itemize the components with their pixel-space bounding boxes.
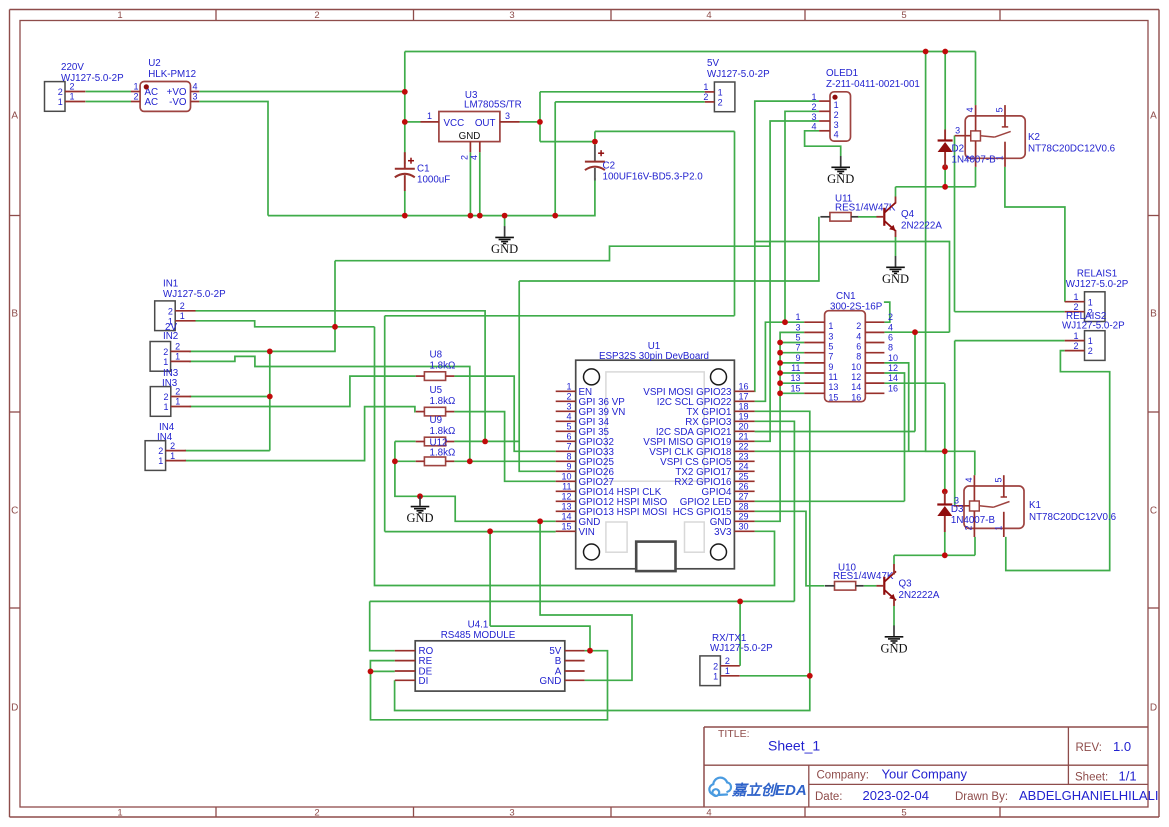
svg-text:ESP32S 30pin DevBoard: ESP32S 30pin DevBoard — [599, 351, 709, 362]
svg-text:Sheet_1: Sheet_1 — [768, 738, 820, 754]
svg-text:IN4: IN4 — [157, 432, 173, 443]
svg-text:3: 3 — [834, 120, 839, 130]
svg-text:1: 1 — [117, 10, 122, 21]
svg-text:12: 12 — [561, 491, 571, 501]
svg-text:U8: U8 — [430, 350, 443, 361]
svg-text:HLK-PM12: HLK-PM12 — [148, 69, 196, 80]
svg-text:14: 14 — [561, 511, 571, 521]
svg-text:15: 15 — [828, 392, 838, 402]
svg-text:3V3: 3V3 — [714, 527, 732, 538]
svg-text:14: 14 — [888, 373, 898, 383]
svg-text:2: 2 — [168, 306, 173, 316]
svg-text:2: 2 — [566, 391, 571, 401]
svg-text:D: D — [11, 703, 18, 714]
svg-text:3: 3 — [795, 322, 800, 332]
svg-text:29: 29 — [739, 511, 749, 521]
svg-text:2023-02-04: 2023-02-04 — [863, 788, 930, 803]
svg-text:3: 3 — [566, 401, 571, 411]
svg-text:11: 11 — [562, 481, 571, 491]
svg-text:18: 18 — [739, 401, 749, 411]
svg-text:1: 1 — [133, 82, 138, 92]
svg-text:2: 2 — [133, 92, 138, 102]
svg-text:Company:: Company: — [817, 770, 869, 782]
svg-text:2: 2 — [703, 92, 708, 102]
svg-text:9: 9 — [795, 353, 800, 363]
svg-text:IN3: IN3 — [162, 378, 178, 389]
svg-text:4: 4 — [965, 107, 975, 112]
svg-text:1: 1 — [811, 92, 816, 102]
svg-text:22: 22 — [739, 441, 749, 451]
svg-text:2: 2 — [175, 342, 180, 352]
svg-text:4: 4 — [856, 331, 861, 341]
svg-text:1: 1 — [180, 311, 185, 321]
svg-text:2: 2 — [460, 155, 470, 160]
svg-text:5V: 5V — [707, 58, 719, 69]
svg-text:3: 3 — [955, 125, 960, 135]
svg-text:2: 2 — [963, 525, 973, 530]
svg-text:1: 1 — [703, 82, 708, 92]
svg-text:IN1: IN1 — [163, 279, 178, 290]
svg-text:1: 1 — [163, 357, 168, 367]
svg-text:7: 7 — [566, 441, 571, 451]
svg-text:1.8kΩ: 1.8kΩ — [430, 426, 456, 437]
svg-text:NT78C20DC12V0.6: NT78C20DC12V0.6 — [1028, 144, 1116, 155]
svg-text:11: 11 — [828, 372, 837, 382]
svg-text:2: 2 — [314, 808, 319, 819]
svg-text:2: 2 — [163, 347, 168, 357]
svg-text:Sheet:: Sheet: — [1075, 772, 1108, 784]
svg-text:21: 21 — [739, 431, 749, 441]
svg-text:A: A — [1150, 111, 1157, 122]
svg-text:1N4007-B: 1N4007-B — [951, 515, 996, 526]
svg-text:5: 5 — [901, 10, 906, 21]
svg-text:VCC: VCC — [444, 118, 465, 129]
svg-text:16: 16 — [739, 381, 749, 391]
svg-text:1: 1 — [1073, 331, 1078, 341]
svg-text:3: 3 — [193, 92, 198, 102]
svg-text:1: 1 — [718, 88, 723, 98]
svg-text:1: 1 — [725, 666, 730, 676]
svg-text:2: 2 — [888, 312, 893, 322]
svg-text:3: 3 — [505, 111, 510, 121]
svg-text:4: 4 — [193, 82, 198, 92]
svg-text:B: B — [1150, 309, 1157, 320]
svg-text:23: 23 — [739, 451, 749, 461]
svg-text:2: 2 — [58, 87, 63, 97]
svg-text:B: B — [555, 656, 562, 667]
svg-text:10: 10 — [888, 353, 898, 363]
svg-text:10: 10 — [851, 362, 861, 372]
svg-text:12: 12 — [888, 363, 898, 373]
svg-text:GND: GND — [540, 676, 562, 687]
svg-text:1: 1 — [993, 525, 1003, 530]
svg-text:1: 1 — [995, 155, 1005, 160]
svg-text:U2: U2 — [148, 58, 161, 69]
svg-text:5: 5 — [901, 808, 906, 819]
svg-text:2: 2 — [713, 661, 718, 671]
svg-text:4: 4 — [706, 10, 711, 21]
svg-text:4: 4 — [811, 122, 816, 132]
svg-text:TITLE:: TITLE: — [718, 728, 750, 740]
svg-text:K2: K2 — [1028, 132, 1040, 143]
svg-text:WJ127-5.0-2P: WJ127-5.0-2P — [1066, 279, 1129, 290]
svg-text:VIN: VIN — [579, 527, 595, 538]
svg-text:8: 8 — [888, 343, 893, 353]
svg-text:9: 9 — [828, 362, 833, 372]
svg-text:1.8kΩ: 1.8kΩ — [430, 396, 456, 407]
svg-text:1: 1 — [117, 808, 122, 819]
svg-text:1000uF: 1000uF — [417, 175, 450, 186]
svg-text:28: 28 — [739, 501, 749, 511]
svg-text:2: 2 — [1073, 341, 1078, 351]
svg-text:27: 27 — [739, 491, 749, 501]
svg-text:1: 1 — [70, 92, 75, 102]
svg-text:15: 15 — [561, 521, 571, 531]
svg-text:8: 8 — [566, 451, 571, 461]
svg-text:4: 4 — [964, 477, 974, 482]
svg-text:嘉立创: 嘉立创 — [731, 782, 778, 799]
svg-text:B: B — [11, 309, 18, 320]
svg-text:1.0: 1.0 — [1113, 739, 1131, 754]
svg-text:1: 1 — [170, 451, 175, 461]
svg-text:C2: C2 — [603, 161, 616, 172]
svg-text:D3: D3 — [951, 504, 964, 515]
svg-text:2: 2 — [856, 321, 861, 331]
svg-text:15: 15 — [790, 383, 800, 393]
svg-text:IN2: IN2 — [163, 331, 178, 342]
svg-text:13: 13 — [790, 373, 800, 383]
svg-text:10: 10 — [561, 471, 571, 481]
svg-text:19: 19 — [739, 411, 749, 421]
svg-text:3: 3 — [811, 112, 816, 122]
svg-text:1: 1 — [164, 402, 169, 412]
svg-text:14: 14 — [851, 382, 861, 392]
svg-text:1.8kΩ: 1.8kΩ — [430, 448, 456, 459]
svg-text:1: 1 — [713, 671, 718, 681]
svg-text:RS485 MODULE: RS485 MODULE — [441, 630, 516, 641]
svg-text:Date:: Date: — [815, 791, 843, 803]
svg-text:1: 1 — [427, 111, 432, 121]
svg-text:GND: GND — [459, 131, 481, 142]
svg-text:1: 1 — [58, 97, 63, 107]
svg-text:13: 13 — [828, 382, 838, 392]
svg-text:5: 5 — [995, 107, 1005, 112]
svg-text:ABDELGHANIELHILALI: ABDELGHANIELHILALI — [1019, 788, 1158, 803]
svg-text:NT78C20DC12V0.6: NT78C20DC12V0.6 — [1029, 512, 1117, 523]
svg-text:RELAIS1: RELAIS1 — [1077, 269, 1117, 280]
svg-text:12: 12 — [851, 372, 861, 382]
svg-text:100UF16V-BD5.3-P2.0: 100UF16V-BD5.3-P2.0 — [603, 172, 704, 183]
svg-text:2: 2 — [164, 392, 169, 402]
svg-text:OLED1: OLED1 — [826, 68, 858, 79]
svg-text:2N2222A: 2N2222A — [899, 590, 940, 601]
svg-text:3: 3 — [828, 331, 833, 341]
svg-text:GND: GND — [827, 172, 854, 186]
svg-text:16: 16 — [851, 392, 861, 402]
svg-text:D: D — [1150, 703, 1157, 714]
svg-text:GND: GND — [882, 272, 909, 286]
svg-text:WJ127-5.0-2P: WJ127-5.0-2P — [1062, 321, 1125, 332]
svg-text:GND: GND — [406, 511, 433, 525]
svg-text:2: 2 — [1088, 346, 1093, 356]
svg-text:8: 8 — [856, 352, 861, 362]
svg-text:1: 1 — [175, 352, 180, 362]
svg-text:Q3: Q3 — [899, 579, 913, 590]
svg-text:5: 5 — [566, 421, 571, 431]
svg-text:RE: RE — [419, 656, 433, 667]
svg-text:30: 30 — [739, 521, 749, 531]
svg-text:-VO: -VO — [169, 97, 187, 108]
svg-text:C1: C1 — [417, 164, 430, 175]
svg-text:LM7805S/TR: LM7805S/TR — [464, 100, 522, 111]
svg-text:U5: U5 — [430, 385, 443, 396]
svg-text:REV:: REV: — [1076, 742, 1102, 754]
svg-text:220V: 220V — [61, 62, 84, 73]
svg-text:5: 5 — [993, 477, 1003, 482]
svg-text:6: 6 — [888, 333, 893, 343]
svg-text:RES1/4W47K: RES1/4W47K — [835, 203, 896, 214]
svg-text:2N2222A: 2N2222A — [901, 221, 942, 232]
svg-text:4: 4 — [566, 411, 571, 421]
svg-text:4: 4 — [706, 808, 711, 819]
svg-text:1: 1 — [828, 321, 833, 331]
svg-text:300-2S-16P: 300-2S-16P — [830, 301, 883, 312]
svg-text:25: 25 — [739, 471, 749, 481]
svg-text:1: 1 — [1088, 336, 1093, 346]
svg-text:24: 24 — [739, 461, 749, 471]
svg-text:Your Company: Your Company — [882, 767, 968, 782]
svg-text:AC: AC — [145, 97, 159, 108]
svg-text:3: 3 — [509, 10, 514, 21]
svg-text:K1: K1 — [1029, 500, 1041, 511]
svg-text:1/1: 1/1 — [1119, 769, 1137, 784]
svg-text:C: C — [11, 506, 18, 517]
svg-text:6: 6 — [856, 342, 861, 352]
svg-text:5: 5 — [828, 342, 833, 352]
svg-text:6: 6 — [566, 431, 571, 441]
svg-text:2: 2 — [811, 102, 816, 112]
svg-text:1: 1 — [566, 381, 571, 391]
svg-text:EDA: EDA — [775, 782, 807, 799]
svg-text:2: 2 — [834, 110, 839, 120]
svg-text:GND: GND — [491, 242, 518, 256]
svg-text:9: 9 — [566, 461, 571, 471]
svg-text:2: 2 — [718, 98, 723, 108]
svg-text:WJ127-5.0-2P: WJ127-5.0-2P — [163, 289, 226, 300]
svg-text:7: 7 — [795, 343, 800, 353]
svg-text:26: 26 — [739, 481, 749, 491]
svg-text:1: 1 — [1073, 292, 1078, 302]
svg-text:1.8kΩ: 1.8kΩ — [430, 361, 456, 372]
svg-text:Q4: Q4 — [901, 209, 915, 220]
svg-text:7: 7 — [828, 352, 833, 362]
svg-text:20: 20 — [739, 421, 749, 431]
svg-text:GND: GND — [880, 641, 907, 655]
svg-text:Drawn By:: Drawn By: — [955, 791, 1008, 803]
svg-text:1: 1 — [834, 100, 839, 110]
svg-text:1: 1 — [1088, 297, 1093, 307]
svg-text:OUT: OUT — [475, 118, 496, 129]
svg-text:17: 17 — [739, 391, 749, 401]
svg-text:16: 16 — [888, 383, 898, 393]
svg-text:2: 2 — [725, 656, 730, 666]
svg-text:2: 2 — [180, 301, 185, 311]
svg-text:1: 1 — [175, 397, 180, 407]
svg-text:4: 4 — [888, 322, 893, 332]
svg-text:5: 5 — [795, 333, 800, 343]
svg-text:U12: U12 — [430, 437, 448, 448]
svg-text:1N4007-B: 1N4007-B — [952, 155, 997, 166]
svg-text:4: 4 — [469, 155, 479, 160]
svg-text:1: 1 — [795, 312, 800, 322]
svg-text:DI: DI — [419, 676, 429, 687]
svg-text:4: 4 — [834, 130, 839, 140]
svg-text:WJ127-5.0-2P: WJ127-5.0-2P — [707, 69, 770, 80]
svg-text:1: 1 — [158, 456, 163, 466]
svg-text:A: A — [11, 111, 18, 122]
svg-text:2: 2 — [158, 446, 163, 456]
svg-text:D2: D2 — [952, 144, 965, 155]
svg-text:C: C — [1150, 506, 1157, 517]
svg-text:U9: U9 — [430, 415, 443, 426]
svg-text:WJ127-5.0-2P: WJ127-5.0-2P — [61, 73, 124, 84]
svg-text:2: 2 — [314, 10, 319, 21]
svg-text:Z-211-0411-0021-001: Z-211-0411-0021-001 — [826, 79, 920, 90]
svg-text:11: 11 — [791, 363, 800, 373]
svg-text:WJ127-5.0-2P: WJ127-5.0-2P — [710, 643, 773, 654]
svg-text:3: 3 — [509, 808, 514, 819]
svg-text:13: 13 — [561, 501, 571, 511]
